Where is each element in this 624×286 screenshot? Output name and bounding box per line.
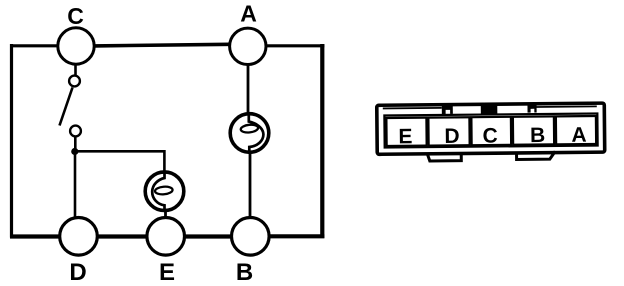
node A — [230, 28, 266, 64]
node E — [147, 218, 185, 256]
wire top edge: node A to right corner — [266, 44, 324, 47]
wire bottom edge: node B to right corner — [268, 234, 324, 238]
wire top edge: node C to node A — [94, 44, 230, 46]
wire lamp L2 to node E — [164, 211, 167, 220]
svg-text:E: E — [159, 259, 175, 286]
label A — [240, 1, 257, 27]
label D — [69, 259, 86, 286]
label C — [67, 3, 84, 29]
wire bottom edge: node E to node B — [184, 234, 232, 238]
pin label E — [398, 125, 412, 148]
switch blade (open) — [60, 88, 73, 126]
node C — [58, 28, 94, 64]
node B — [232, 218, 270, 256]
connector top seam line (right) — [536, 105, 597, 108]
connector cavity A — [556, 116, 596, 144]
svg-text:C: C — [482, 124, 497, 147]
connector latch block left — [442, 104, 453, 115]
wire node C to switch — [74, 64, 77, 76]
wire switch to junction — [74, 137, 77, 153]
connector mounting tab left — [427, 153, 461, 161]
label B — [236, 259, 253, 286]
wire junction to node D — [74, 152, 77, 219]
svg-text:A: A — [571, 124, 586, 147]
svg-text:B: B — [530, 124, 545, 147]
switch contact circle (upper) — [69, 76, 80, 87]
pin label C — [482, 124, 497, 147]
wire lamp L1 to node B — [249, 152, 252, 218]
switch contact circle (lower) — [70, 126, 81, 137]
svg-text:C: C — [67, 3, 84, 29]
svg-text:D: D — [444, 125, 459, 148]
connector cavity C — [471, 117, 511, 145]
svg-text:D: D — [69, 259, 86, 286]
wire top edge: left corner to node C — [10, 44, 58, 47]
junction dot — [71, 148, 78, 155]
connector inner frame — [384, 113, 597, 147]
connector key block (solid black) — [481, 103, 498, 115]
node D — [60, 218, 98, 256]
connector latch block right — [527, 103, 536, 113]
connector cavity B — [513, 116, 554, 144]
wire node A to lamp L1 — [247, 64, 250, 115]
connector mounting tab right — [517, 151, 556, 159]
connector cavity E — [386, 118, 426, 146]
pin label B — [530, 124, 545, 147]
wire left edge of loop — [10, 44, 13, 238]
pin label A — [571, 124, 586, 147]
svg-text:E: E — [398, 125, 412, 148]
wire right edge of loop — [320, 44, 324, 238]
label E — [159, 259, 175, 286]
svg-text:B: B — [236, 259, 253, 286]
connector cavity D — [428, 117, 469, 145]
wire bottom edge: node D to node E — [97, 234, 148, 238]
wire bottom edge: left corner to node D — [10, 234, 60, 238]
lamp L1 (between A and B) — [230, 114, 269, 153]
connector housing outer shell — [377, 103, 605, 154]
wire junction to lamp L2 branch — [75, 151, 165, 172]
pin label D — [444, 125, 459, 148]
lamp L2 (above node E) — [145, 172, 184, 211]
svg-text:A: A — [240, 1, 257, 27]
connector top seam line (left) — [383, 107, 442, 110]
